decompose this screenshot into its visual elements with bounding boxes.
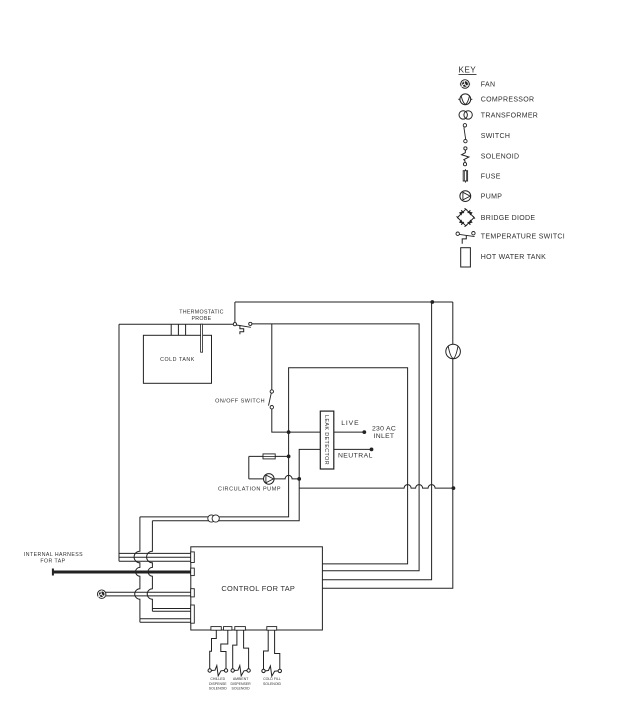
- wire: outer left vertical: [118, 324, 120, 561]
- svg-text:LIVE: LIVE: [341, 420, 359, 427]
- wire: vertical x=431.6 from wire A junction to control box: [322, 302, 431, 580]
- svg-text:KEY: KEY: [459, 66, 477, 75]
- bottom connectors of control box: [211, 627, 277, 631]
- wire: lower cross wire with hops to right vertical: [299, 485, 453, 488]
- svg-text:CONTROL FOR TAP: CONTROL FOR TAP: [221, 584, 295, 593]
- svg-text:ON/OFF SWITCH: ON/OFF SWITCH: [215, 398, 265, 404]
- svg-text:SOLENOID: SOLENOID: [209, 687, 228, 691]
- fan M1: [98, 590, 106, 598]
- wire: vertical from temp switch left terminal up to wire A: [234, 302, 236, 323]
- svg-text:CIRCULATION PUMP: CIRCULATION PUMP: [218, 487, 281, 493]
- transformer (key symbol): [459, 111, 472, 119]
- svg-text:INLET: INLET: [374, 433, 395, 440]
- fuse circuit loop: left side: [248, 456, 250, 479]
- internal harness for tap: [53, 569, 191, 576]
- svg-text:THERMOSTATIC: THERMOSTATIC: [179, 309, 224, 315]
- solenoid L2 ambient dispense: [231, 666, 250, 676]
- wire: fuse wire: [249, 455, 289, 457]
- junction fuse x inner loop: [287, 455, 291, 459]
- svg-text:BRIDGE DIODE: BRIDGE DIODE: [481, 215, 536, 222]
- compressor (key symbol): [458, 94, 472, 105]
- svg-text:FOR TAP: FOR TAP: [40, 558, 65, 564]
- pump (key symbol): [460, 191, 471, 202]
- wire: pump wire with hop: [249, 475, 299, 478]
- wire: neutral branch from leak detector, down, left through transformer, down to connector pair: [152, 449, 320, 520]
- svg-text:AMBIENT: AMBIENT: [233, 677, 249, 681]
- left connectors of control box: [191, 552, 195, 623]
- wires: chilled dispense solenoid: [210, 630, 228, 669]
- solenoid L1 chilled dispense: [208, 666, 228, 676]
- wires: cold fill solenoid: [264, 630, 280, 669]
- wire: neutral from leak detector to inlet terminal: [334, 448, 372, 450]
- svg-text:INTERNAL HARNESS: INTERNAL HARNESS: [24, 552, 83, 558]
- svg-text:PUMP: PUMP: [481, 194, 502, 201]
- fan (key symbol): [460, 80, 470, 89]
- svg-text:FUSE: FUSE: [481, 173, 501, 180]
- solenoid L3 cold fill: [262, 666, 282, 676]
- svg-text:DISPENSER: DISPENSER: [230, 682, 251, 686]
- junction on wire A: [430, 300, 434, 304]
- wire bundle: three lines into control connector 1: [119, 553, 191, 561]
- circulation pump: [264, 474, 275, 485]
- svg-text:LEAK DETECTOR: LEAK DETECTOR: [323, 415, 329, 465]
- transformer T1: [208, 515, 220, 522]
- fuse (key symbol): [463, 169, 467, 182]
- wire: vertical x=139.9 with hops, to connector pair: [134, 517, 140, 619]
- thermostatic probe temperature switch: [233, 322, 252, 334]
- switch (key symbol): [463, 124, 467, 143]
- hot water tank (key symbol): [461, 248, 471, 267]
- wires: ambient dispense solenoid: [233, 630, 249, 669]
- svg-text:COLD FILL: COLD FILL: [263, 677, 281, 681]
- junction dots: [287, 300, 456, 490]
- thermostatic probe into tank: [201, 324, 203, 352]
- cold tank: [143, 335, 211, 383]
- svg-text:SWITCH: SWITCH: [481, 133, 510, 140]
- svg-text:SOLENOID: SOLENOID: [232, 687, 251, 691]
- wire: ON/OFF switch branch vertical: [272, 324, 321, 432]
- temperature switch (key symbol): [456, 232, 475, 244]
- svg-text:SOLENOID: SOLENOID: [481, 154, 520, 161]
- on/off switch: [269, 390, 274, 409]
- solenoid (key symbol): [462, 147, 469, 166]
- svg-text:CHILLED: CHILLED: [210, 677, 225, 681]
- wire: right vertical x=452.8 down through compressor to control box: [322, 302, 452, 588]
- fuse F1: [263, 454, 275, 459]
- wire: left horizontal to temp switch: [119, 323, 233, 325]
- svg-text:HOT WATER TANK: HOT WATER TANK: [481, 254, 546, 261]
- junction pump x neutral branch: [297, 477, 301, 481]
- wire A (top wire): [235, 301, 453, 303]
- bridge diode (key symbol): [457, 208, 475, 226]
- svg-text:DISPENSE: DISPENSE: [209, 682, 227, 686]
- svg-text:NEUTRAL: NEUTRAL: [338, 453, 373, 460]
- leak detector: [320, 411, 334, 469]
- wire B: from temp switch right terminal to right vertical x=419.1 to control box: [252, 324, 419, 571]
- inner loop wire: control box to top, across, down left side, to transformer and lower connector pair: [140, 368, 408, 564]
- svg-text:COMPRESSOR: COMPRESSOR: [481, 97, 535, 104]
- neutral terminal dot: [370, 448, 374, 452]
- compressor: [446, 344, 461, 359]
- wire: live from leak detector to inlet terminal: [334, 431, 365, 433]
- svg-text:FAN: FAN: [481, 81, 496, 88]
- live terminal dot: [362, 430, 366, 434]
- control box for tap: [191, 547, 323, 630]
- pins into cold tank: [171, 324, 185, 335]
- svg-text:TEMPERATURE SWITCI: TEMPERATURE SWITCI: [481, 233, 565, 240]
- junction live x inner loop: [287, 430, 291, 434]
- svg-text:COLD TANK: COLD TANK: [160, 357, 195, 363]
- svg-text:PROBE: PROBE: [191, 316, 211, 322]
- svg-text:230 AC: 230 AC: [372, 425, 396, 432]
- junction cross wire x right vertical: [452, 486, 456, 490]
- svg-text:TRANSFORMER: TRANSFORMER: [481, 112, 538, 119]
- svg-text:SOLENOID: SOLENOID: [263, 682, 282, 686]
- wire: fan pair to control box: [106, 592, 191, 596]
